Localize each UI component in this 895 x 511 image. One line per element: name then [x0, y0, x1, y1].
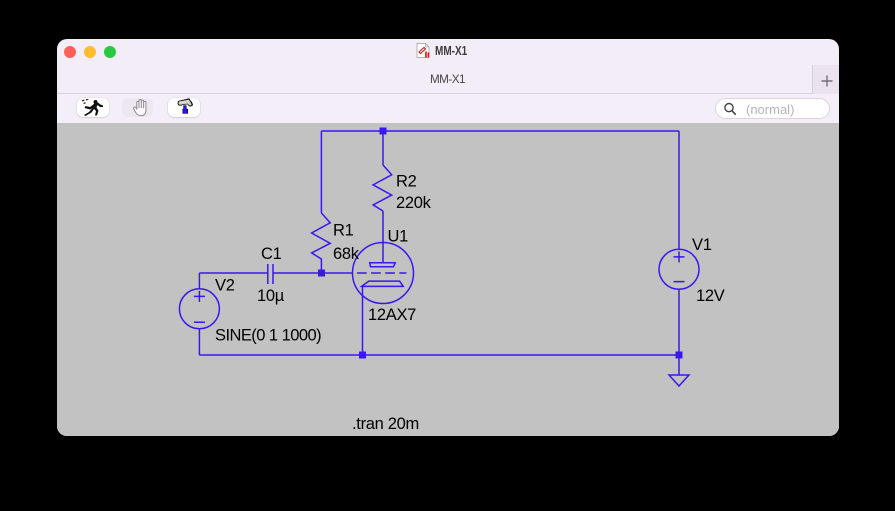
node junction R1-grid	[318, 270, 325, 277]
wire R2 bottom / plate lead	[382, 211, 384, 263]
wire V2 bottom lead	[198, 329, 200, 355]
svg-text:R2: R2	[396, 173, 417, 191]
resistor R1	[312, 213, 331, 270]
voltage source V2	[179, 289, 219, 329]
wire V2 top riser	[198, 273, 200, 289]
wire V1 bottom lead	[678, 289, 680, 355]
node junction cathode-bottom	[359, 352, 366, 359]
cathode of U1	[362, 281, 404, 286]
wire R2 top lead	[382, 131, 384, 165]
wire V1 top riser	[678, 131, 680, 249]
plate of U1	[370, 263, 396, 267]
svg-text:68k: 68k	[333, 245, 360, 263]
triode U1	[353, 243, 414, 304]
wire R1 top lead	[320, 131, 322, 213]
voltage source V1	[659, 249, 699, 289]
wire top rail	[321, 130, 679, 132]
capacitor C1	[268, 264, 273, 284]
node junction ground	[676, 352, 683, 359]
wire cathode lead	[362, 286, 364, 355]
svg-text:V2: V2	[215, 277, 235, 295]
node junction top	[380, 128, 387, 135]
svg-text:220k: 220k	[396, 194, 432, 212]
svg-text:R1: R1	[333, 222, 354, 240]
svg-text:SINE(0 1 1000): SINE(0 1 1000)	[215, 326, 321, 344]
svg-text:10µ: 10µ	[257, 287, 285, 305]
svg-text:.tran 20m: .tran 20m	[352, 415, 419, 433]
wire bottom rail	[199, 354, 679, 356]
grid of U1 (dashed)	[357, 272, 407, 274]
svg-text:U1: U1	[388, 228, 409, 246]
resistor R2	[373, 165, 392, 211]
svg-text:V1: V1	[692, 236, 712, 254]
wire ground lead	[678, 358, 680, 375]
ground	[669, 375, 689, 386]
wire mid rail (grid net)	[199, 272, 352, 274]
svg-text:C1: C1	[261, 245, 282, 263]
svg-text:12V: 12V	[696, 287, 725, 305]
svg-text:12AX7: 12AX7	[368, 306, 416, 324]
